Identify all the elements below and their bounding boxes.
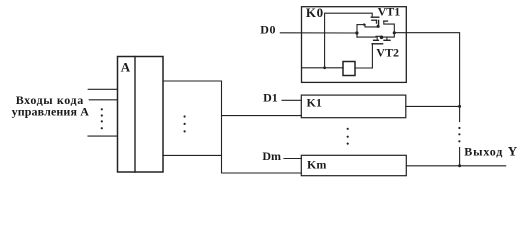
decoder output wire bottom (163, 154, 222, 156)
junction Y-bus (458, 164, 461, 167)
svg-text:VT1: VT1 (378, 5, 401, 19)
output bus lower segment (459, 148, 461, 166)
svg-text:K1: K1 (307, 95, 322, 109)
transistor VT1 (357, 17, 394, 33)
wire Dm input (284, 158, 301, 160)
decoder output wire top (163, 80, 222, 82)
select wire to K1 (222, 115, 302, 117)
ellipsis K1-Km dots (347, 128, 349, 145)
ellipsis input dots (101, 108, 103, 129)
svg-text:A: A (121, 60, 131, 75)
node right of transmission gate (393, 31, 396, 34)
node left of transmission gate (355, 31, 358, 34)
decoder inner divider (134, 57, 136, 173)
svg-text:VT2: VT2 (376, 45, 399, 59)
VT2 substrate dot (380, 36, 384, 40)
ellipsis output bus dots (458, 127, 460, 142)
wire D1 input (282, 99, 301, 101)
VT1 substrate dot (377, 25, 380, 28)
svg-text:K0: K0 (306, 5, 324, 20)
VT1 gate lead (325, 13, 373, 68)
VT1 source junction dot (363, 23, 365, 25)
junction select/gate (323, 66, 326, 69)
transistor VT2 (357, 33, 394, 44)
ellipsis decoder-bus dots (184, 115, 186, 132)
svg-text:Выход: Выход (464, 145, 503, 159)
svg-text:управления А: управления А (12, 104, 90, 118)
wire D0 input (280, 32, 357, 34)
wire K0 output (394, 33, 459, 122)
decoder A box (118, 57, 164, 173)
K0 box (302, 7, 407, 83)
wire inverter out to VT2 gate (355, 67, 372, 69)
inverter DD1 box (343, 62, 355, 76)
Km box (301, 155, 406, 175)
input wire A1 (89, 99, 117, 101)
VT2 gate lead (371, 44, 373, 68)
svg-text:Km: Km (307, 158, 326, 172)
wire Km output / Y (406, 165, 505, 167)
select bus vertical (222, 81, 302, 173)
K1 box (301, 95, 406, 118)
input wire An (88, 135, 118, 137)
svg-text:Y: Y (508, 144, 518, 159)
svg-text:D1: D1 (263, 91, 278, 105)
svg-text:Dm: Dm (262, 149, 281, 163)
wire K1 output (406, 105, 460, 107)
svg-text:D0: D0 (260, 23, 276, 37)
wire select into K0 (302, 67, 344, 69)
junction K1-bus (458, 105, 461, 108)
input wire A0 (88, 88, 117, 90)
